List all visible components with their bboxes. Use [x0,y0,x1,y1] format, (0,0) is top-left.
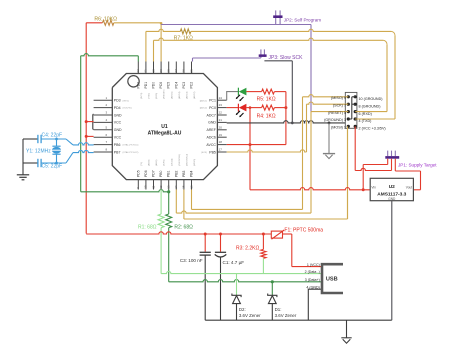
svg-text:11: 11 [151,185,155,188]
fuse F1 PPTC [271,228,323,240]
svg-text:GND: GND [114,128,122,132]
wire RXD vertical to connector pin 6 [386,44,388,111]
svg-text:10: 10 [144,185,148,189]
svg-text:Y1: 12MHz: Y1: 12MHz [26,148,51,154]
svg-text:(AIN1): (AIN1) [155,159,158,166]
wire JP1 left pin to Vin net [362,159,388,192]
wire pin24 to green LED [227,92,239,101]
wire ISP ground bracket [348,97,355,119]
wire 5V line D to regulator Vin [250,188,370,190]
svg-text:19: 19 [219,133,223,137]
svg-text:(ADC4): (ADC4) [178,91,181,99]
wire USB Data- line [161,271,322,273]
U1 bottom pin stubs 9-16 [136,180,193,190]
wire pin23 to red LED [227,107,239,109]
svg-text:PC6: PC6 [159,82,163,89]
capacitor C1 (polarized) [215,234,245,320]
ground (crystal) [17,175,29,180]
zener D2 [232,274,261,321]
svg-text:ADC7: ADC7 [207,113,216,117]
wire JP1 middle pin [391,159,393,171]
svg-text:4 (GND): 4 (GND) [306,286,319,290]
svg-text:6 (RXD): 6 (RXD) [359,112,372,116]
svg-text:31: 31 [144,69,148,73]
resistor R3 [236,234,266,274]
wire U2 GND down to bus [391,201,393,321]
jumper JP3 [259,49,303,61]
LED D4 red [236,104,247,118]
svg-text:(ADC1): (ADC1) [200,99,208,102]
wire USB D+ left rail (green, pin32) [81,54,139,192]
svg-text:(T1): (T1) [141,162,143,166]
svg-text:PD3: PD3 [114,99,121,103]
svg-text:16: 16 [189,185,193,189]
svg-text:3.6V Zener: 3.6V Zener [239,313,261,318]
wire VCC vertical rail (red) [85,23,87,234]
capacitor C5 [23,159,62,170]
svg-text:32: 32 [136,69,140,73]
wire D+ junction line to pin13 [81,190,171,194]
svg-text:JP3: Slow SCK: JP3: Slow SCK [269,55,304,61]
svg-text:PC1: PC1 [209,99,216,103]
resistor R4 [246,105,286,119]
svg-text:JP1: Supply Target: JP1: Supply Target [398,163,437,168]
wire RESET row [311,111,348,113]
svg-text:Vout: Vout [406,186,412,190]
voltage regulator U2 [370,178,413,201]
svg-text:R2: 68Ω: R2: 68Ω [174,224,193,230]
svg-text:14: 14 [174,185,178,189]
svg-text:29: 29 [159,69,163,73]
svg-text:(AIN0): (AIN0) [148,159,151,166]
svg-text:PC0: PC0 [209,106,216,110]
svg-text:24: 24 [219,96,223,100]
U1 top pin names [136,82,196,99]
svg-text:C3: 100 nF: C3: 100 nF [180,258,203,263]
svg-text:PD0: PD0 [152,82,156,89]
svg-text:PC4: PC4 [174,82,178,89]
svg-text:PD1: PD1 [144,82,148,89]
svg-text:PD2: PD2 [136,82,140,89]
svg-text:15: 15 [182,185,186,189]
svg-text:(INT1): (INT1) [123,100,129,102]
svg-text:(SCK) 7: (SCK) 7 [333,103,346,107]
svg-text:PB5: PB5 [209,150,216,154]
svg-text:C5: 22pF: C5: 22pF [42,164,63,170]
ground (bottom arrow) [341,320,351,343]
svg-text:PB0: PB0 [159,170,163,177]
svg-text:R4: 1KΩ: R4: 1KΩ [257,113,276,119]
wire AVCC pin18 line [227,143,286,146]
svg-text:Vin: Vin [371,186,376,190]
svg-text:GND: GND [114,113,122,117]
svg-text:(OC1A): (OC1A) [170,158,173,166]
wire XTAL2 to pin8 [41,150,94,164]
svg-text:12: 12 [159,185,163,189]
svg-text:4 (TXD): 4 (TXD) [359,119,372,123]
jumper JP1 [385,151,437,168]
svg-text:ADC6: ADC6 [207,136,216,140]
svg-text:JP2: Self Program: JP2: Self Program [284,17,321,22]
svg-text:(RESET) 5: (RESET) 5 [328,111,346,115]
wire LED rail down to AVCC line [284,92,287,145]
zener D1 [268,282,297,320]
wire reset net: pin29 vertical [160,22,163,25]
svg-text:VCC: VCC [114,121,122,125]
jumper JP3 wire (purple) to pin25 [193,58,261,62]
svg-text:1 (VCC): 1 (VCC) [307,263,320,267]
svg-text:(SCK): (SCK) [201,152,207,154]
svg-text:20: 20 [219,125,223,129]
connector ISP header box [345,92,357,128]
svg-text:PD5: PD5 [136,170,140,177]
wire GND bracket pins 3+5 [92,114,95,129]
IC U1 ATMega8L-AU body (TQFP-32 octagon) [112,74,217,180]
resistor R1 (68 ohm, D-) [138,190,164,274]
U1 right pin stubs 24-17 [217,96,226,152]
svg-text:GND: GND [388,197,396,201]
wire USB GND pin4 [308,289,322,320]
jumper JP2 wire (purple) to reset net [161,24,311,26]
svg-text:27: 27 [174,69,178,73]
svg-text:C4: 22pF: C4: 22pF [42,133,63,139]
svg-text:13: 13 [167,185,171,189]
svg-text:(ADC2): (ADC2) [193,91,196,99]
wire VCC to pin6 [85,135,94,138]
wire crystal gnd rail [22,139,24,175]
svg-text:PC2: PC2 [190,82,194,89]
wire VCC to pin4 [85,120,94,123]
wire RXD row [355,111,387,113]
svg-text:(RXD): (RXD) [156,93,158,99]
wire VCC from connector pin2 [355,126,391,170]
jumper JP2 [273,10,321,24]
svg-text:17: 17 [219,148,223,152]
LED D3 green [236,88,247,102]
svg-text:(MOSI) 1: (MOSI) 1 [331,126,346,130]
wire fuse to USB VCC pin1 [283,234,323,267]
wire GND pin21 to ISP connector [227,119,350,124]
crystal Y1 [26,139,62,163]
svg-text:PB3: PB3 [182,170,186,177]
svg-text:(ADC3): (ADC3) [186,91,189,99]
resistor R5 [246,89,286,102]
svg-text:VCC: VCC [114,136,122,140]
svg-text:(GROUND) 3: (GROUND) 3 [324,118,346,122]
wire USB 5V line [86,232,271,236]
svg-text:30: 30 [151,69,155,73]
svg-text:22: 22 [219,111,223,115]
svg-text:R6: 10KΩ: R6: 10KΩ [94,17,117,23]
ISP pin labels [324,96,386,131]
svg-text:(MOSI/OC2): (MOSI/OC2) [187,154,189,166]
USB connector [305,263,343,293]
wire PC0 pin23 net vertical [249,108,251,190]
svg-text:18: 18 [219,140,223,144]
wire SCK pin17 to connector [227,104,307,152]
svg-text:R3: 2.2KΩ: R3: 2.2KΩ [236,246,259,252]
svg-text:PD6: PD6 [144,170,148,177]
svg-text:(MISO): (MISO) [194,159,196,166]
svg-text:(ICP1): (ICP1) [164,159,166,166]
svg-text:GND: GND [208,121,216,125]
resistor R7 + TXD net (pin31) [146,29,395,62]
svg-text:PC3: PC3 [182,82,186,89]
wire USB Data+ line [169,280,322,284]
capacitor C4 [23,133,62,144]
svg-text:PB1: PB1 [167,170,171,177]
wire XTAL1 to pin7 [41,138,94,145]
svg-text:U2: U2 [389,184,395,190]
svg-text:25: 25 [189,69,193,73]
svg-text:21: 21 [219,118,223,122]
wire RXD net (pin30) [154,38,388,61]
resistor R2 (68 ohm, D+) [166,190,193,282]
svg-text:R1: 68Ω: R1: 68Ω [138,224,157,230]
svg-text:8 (GROUND): 8 (GROUND) [359,104,381,108]
svg-text:3.6V Zener: 3.6V Zener [275,313,297,318]
svg-text:AVCC: AVCC [206,143,216,147]
svg-text:D1:: D1: [275,307,282,312]
svg-text:2 (Data -): 2 (Data -) [305,270,320,274]
wire JP3 to ground line [264,61,292,123]
svg-text:USB: USB [326,277,338,283]
svg-text:AREF: AREF [207,128,216,132]
svg-text:PD4: PD4 [114,106,121,110]
wire MISO net pin16 [192,97,303,210]
svg-text:(INT0): (INT0) [141,93,143,99]
wire MOSI net pin15 [184,126,348,219]
ground (ISP, gray arrow) [323,123,335,159]
wire TXD row [355,118,395,120]
svg-text:(/SS/OC1B): (/SS/OC1B) [179,154,181,166]
svg-text:(/RESET): (/RESET) [164,89,166,99]
wire MISO row [303,95,349,97]
svg-text:(XCK/T0): (XCK/T0) [123,108,132,110]
wire ground bus [205,319,392,321]
svg-text:28: 28 [167,69,171,73]
U1 right pin names [200,99,217,155]
svg-text:(XTAL2/TOSC2): (XTAL2/TOSC2) [123,151,139,154]
svg-text:26: 26 [182,69,186,73]
svg-text:PD7: PD7 [152,170,156,177]
U1 bottom pin names [136,154,196,177]
svg-text:(ADC5): (ADC5) [170,91,173,99]
svg-text:PB4: PB4 [190,170,194,177]
U1 left pin stubs 1-8 [94,96,113,152]
svg-text:23: 23 [219,103,223,107]
svg-text:PB7: PB7 [114,150,121,154]
svg-text:D2:: D2: [239,307,246,312]
svg-text:(MISO) 9: (MISO) 9 [331,96,346,100]
svg-text:(XTAL1/TOSC1): (XTAL1/TOSC1) [123,144,139,147]
svg-text:(TXD): (TXD) [149,93,151,99]
svg-text:2 (VCC +3.3/5V): 2 (VCC +3.3/5V) [359,127,386,131]
svg-text:PB6: PB6 [114,143,121,147]
svg-text:PC5: PC5 [167,82,171,89]
svg-text:10 (GROUND): 10 (GROUND) [359,97,383,101]
U1 left pin names [114,99,139,155]
svg-text:(ADC0): (ADC0) [200,107,208,110]
wire TXD vertical to connector pin 4 [394,35,396,119]
U1 top pin stubs 32-25 [136,62,193,74]
svg-text:R5: 1KΩ: R5: 1KΩ [257,96,276,102]
wire SCK row [307,102,349,104]
svg-text:PB2: PB2 [174,170,178,177]
svg-text:ATMega8L-AU: ATMega8L-AU [148,130,182,136]
svg-text:C1: 4.7 µF: C1: 4.7 µF [223,260,245,265]
wire RESET(target) net pin14 [176,112,311,214]
svg-text:F1: PPTC 500ma: F1: PPTC 500ma [284,228,323,234]
svg-text:3 (Data+): 3 (Data+) [305,278,320,282]
jumper JP2 vertical down to RESET row [310,25,312,112]
capacitor C3 [180,234,211,320]
wire MOSI vertical from connector pin1 [347,126,349,219]
wire JP1 right pin to Vout [395,159,420,190]
svg-text:U1: U1 [161,124,168,130]
resistor R6 [86,17,161,26]
